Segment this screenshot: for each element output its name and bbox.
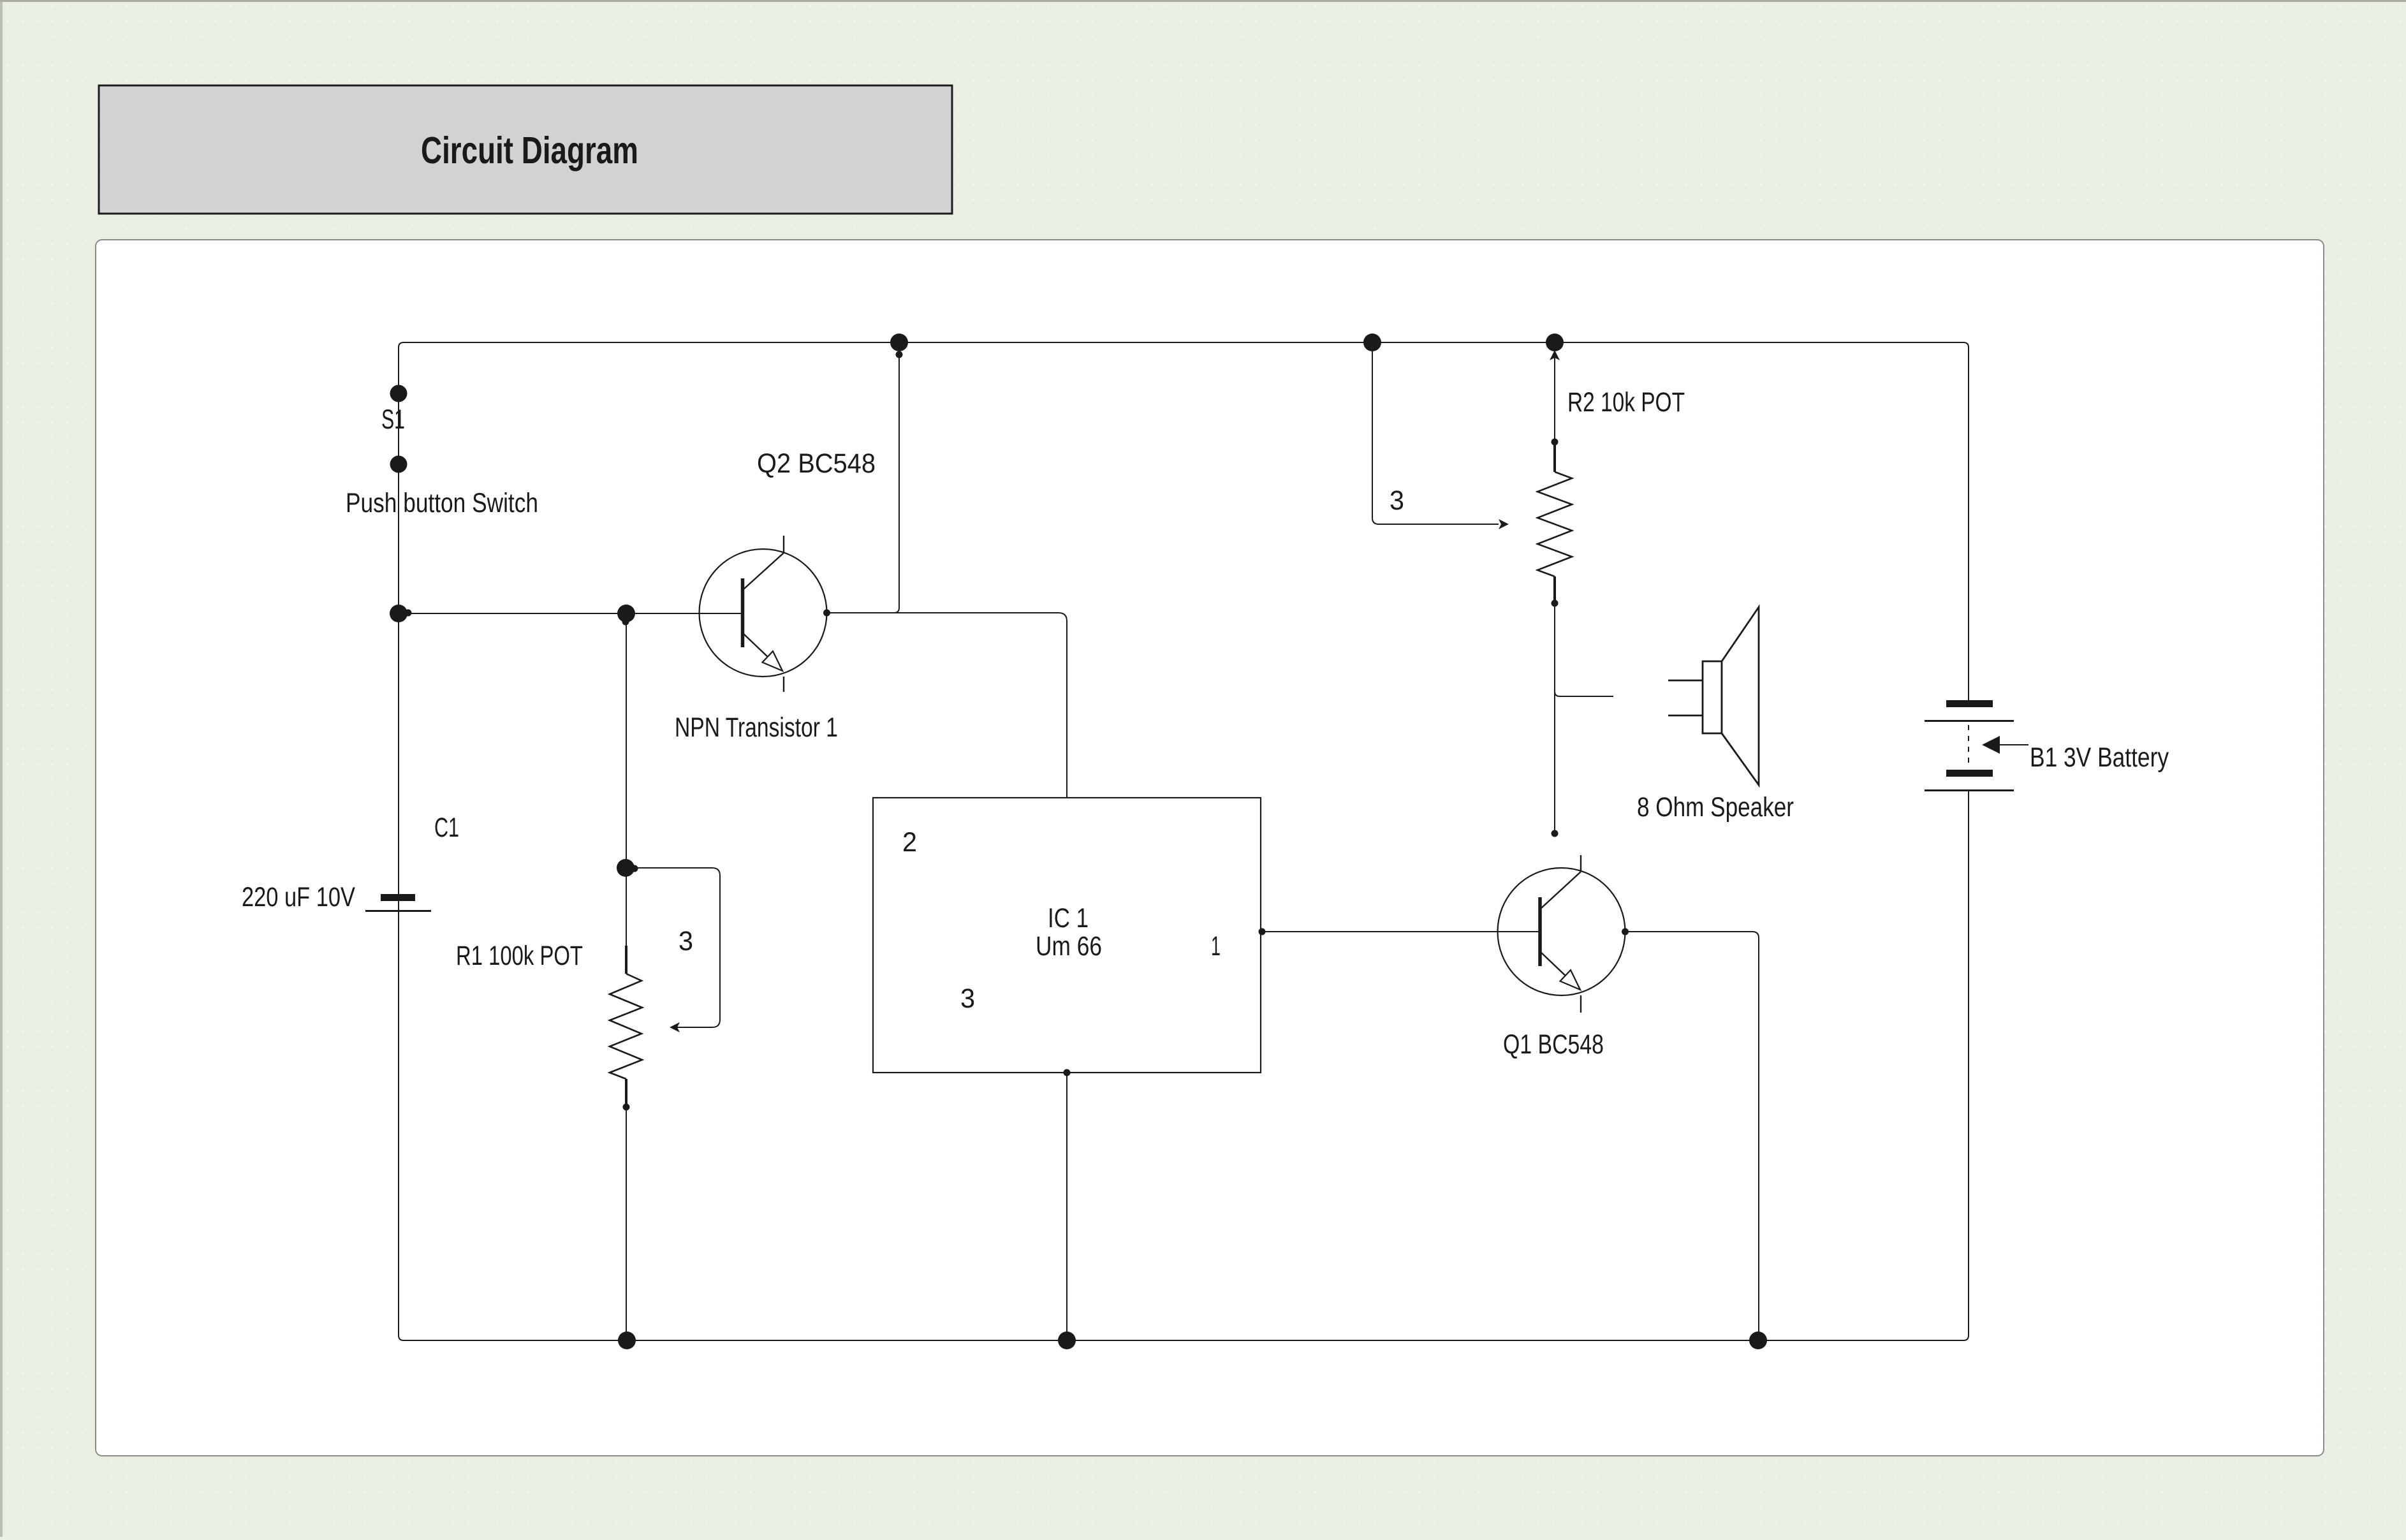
resistor R1 upper lead bbox=[625, 946, 627, 974]
battery B1 plate thick bottom bbox=[1946, 770, 1993, 777]
pin dot Q1 emitter-net bbox=[1622, 928, 1629, 935]
arrow R2 wiper (points right) bbox=[1499, 519, 1509, 529]
wire top-dot 1 stub down to Q2 net bbox=[894, 342, 899, 613]
node bottom rail dot Q1 emitter bbox=[1749, 1331, 1767, 1349]
svg-text:3: 3 bbox=[1390, 485, 1404, 516]
pin dot R2 bottom bbox=[1551, 600, 1559, 607]
resistor R2 lower lead bbox=[1553, 576, 1556, 603]
svg-text:C1: C1 bbox=[434, 812, 459, 843]
svg-text:8 Ohm Speaker: 8 Ohm Speaker bbox=[1637, 792, 1794, 823]
node bottom rail dot R1 bbox=[618, 1331, 636, 1349]
svg-text:3: 3 bbox=[679, 926, 693, 957]
wire R2 to Q1 collector node bbox=[1554, 603, 1555, 833]
node top rail dot 3 (R2) bbox=[1546, 334, 1564, 351]
wire Q1 emitter net to bottom rail bbox=[1625, 932, 1759, 1340]
battery B1 plate thick top bbox=[1946, 700, 1993, 707]
resistor R1 lower lead bbox=[625, 1079, 627, 1107]
switch S1 contact dot A bbox=[390, 385, 407, 402]
node junction R1 wiper bbox=[617, 859, 635, 877]
capacitor C1 plate thin bbox=[365, 910, 431, 912]
wire IC pin1 to Q1 base bbox=[1262, 931, 1540, 932]
svg-text:R1 100k POT: R1 100k POT bbox=[456, 941, 583, 971]
wire horizontal to Q2 base bbox=[399, 613, 742, 614]
svg-text:Q2 BC548: Q2 BC548 bbox=[757, 448, 876, 479]
svg-text:3: 3 bbox=[960, 983, 975, 1014]
title box bbox=[99, 85, 952, 214]
svg-text:B1 3V Battery: B1 3V Battery bbox=[2030, 742, 2169, 773]
page top edge bbox=[0, 0, 2406, 2]
resistor R1 zigzag bbox=[610, 974, 642, 1079]
resistor R2 upper lead bbox=[1553, 442, 1556, 472]
speaker SP1 driver bbox=[1703, 607, 1759, 785]
node junction left rail / horizontal wire bbox=[390, 605, 407, 622]
wire R2 wiper bracket bbox=[1372, 342, 1499, 524]
white canvas bbox=[96, 240, 2324, 1456]
arrow battery label (points left) bbox=[2000, 744, 2028, 745]
pin dot under top rail dot 1 bbox=[896, 351, 903, 358]
svg-text:IC 1: IC 1 bbox=[1048, 903, 1089, 934]
svg-text:Push button Switch: Push button Switch bbox=[346, 488, 538, 518]
transistor Q2 BC548 bbox=[700, 536, 827, 692]
wire battery dashed middle bbox=[1968, 725, 1969, 768]
svg-text:220 uF 10V: 220 uF 10V bbox=[242, 882, 355, 913]
capacitor C1 plate thick bbox=[381, 894, 415, 901]
wire Q2 collector net to IC pin2 bbox=[826, 613, 1067, 798]
wire R2 branch from top rail bbox=[1554, 348, 1555, 442]
switch S1 contact dot B bbox=[390, 456, 407, 473]
svg-text:2: 2 bbox=[902, 827, 917, 858]
node junction R1 top bbox=[617, 605, 635, 622]
IC U1 Um66 box bbox=[873, 798, 1261, 1073]
wire R1 wiper bracket bbox=[635, 868, 720, 1027]
svg-text:1: 1 bbox=[1211, 931, 1221, 962]
pin dot IC pin1 bbox=[1259, 928, 1266, 935]
pin dot IC pin3 bbox=[1064, 1069, 1071, 1076]
svg-text:Um 66: Um 66 bbox=[1036, 931, 1102, 962]
svg-text:NPN Transistor 1: NPN Transistor 1 bbox=[675, 712, 838, 743]
arrow R1 wiper (points left) bbox=[670, 1022, 680, 1032]
node bottom rail dot IC pin3 bbox=[1058, 1331, 1076, 1349]
node top rail dot 1 bbox=[890, 334, 908, 351]
node top rail dot 2 bbox=[1363, 334, 1381, 351]
wire left rail + top wire bbox=[399, 342, 1969, 1335]
battery B1 plate thin bottom bbox=[1925, 789, 2014, 791]
wire bottom rail bbox=[399, 790, 1969, 1340]
wire speaker terminals bbox=[1668, 680, 1703, 715]
svg-text:S1: S1 bbox=[381, 404, 405, 435]
svg-text:R2 10k POT: R2 10k POT bbox=[1567, 387, 1685, 418]
pin dot R2 top bbox=[1551, 439, 1559, 446]
transistor Q1 BC548 bbox=[1498, 855, 1625, 1013]
pin dot Q2 emitter-net bbox=[823, 610, 830, 617]
wire IC pin3 to bottom rail bbox=[1066, 1073, 1067, 1340]
page left edge bbox=[0, 2, 3, 1537]
svg-text:Q1 BC548: Q1 BC548 bbox=[1503, 1029, 1604, 1060]
arrow R2 top (points up) bbox=[1550, 350, 1560, 360]
resistor R2 zigzag bbox=[1537, 472, 1572, 576]
wire stub to speaker bbox=[1555, 691, 1613, 696]
wire R1 branch down bbox=[626, 613, 627, 946]
pin dot R1 bottom bbox=[623, 1104, 630, 1111]
battery B1 plate thin top bbox=[1925, 720, 2014, 722]
pin dot Q1 collector net end bbox=[1551, 830, 1559, 837]
svg-text:Circuit Diagram: Circuit Diagram bbox=[421, 129, 638, 172]
